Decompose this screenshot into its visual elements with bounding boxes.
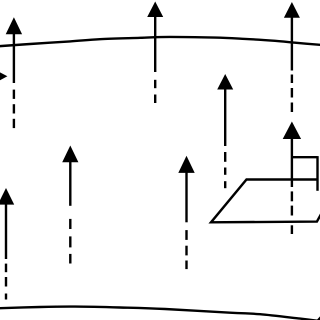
lower curve end at image corner (316, 316, 320, 320)
field line arrow A2 (top middle, x=155.2) (147, 2, 163, 104)
lower boundary curve of field region (0, 307, 319, 320)
right-angle marker between normal and surface (292, 156, 318, 191)
field line arrow A6 (bottom middle, x=187.1) (178, 156, 194, 269)
upper boundary curve of field region (0, 37, 320, 46)
small right-pointing arrowhead clipped at left edge (0, 72, 7, 81)
normal vector arrow n on surface element (x=291.9) (283, 122, 301, 235)
field line arrow A4 (mid left, x=69.4) (62, 146, 78, 264)
field line arrow A1 (top left, x=13.7) (6, 17, 22, 128)
field line arrow A3 (top right, x=291.9) (284, 2, 300, 112)
field line arrow A5 (bottom left, x=5.7, clipped) (0, 188, 14, 300)
surface area element dA (parallelogram) (211, 180, 320, 223)
field line arrow A7 (above surface, x=225.2) (217, 74, 233, 188)
